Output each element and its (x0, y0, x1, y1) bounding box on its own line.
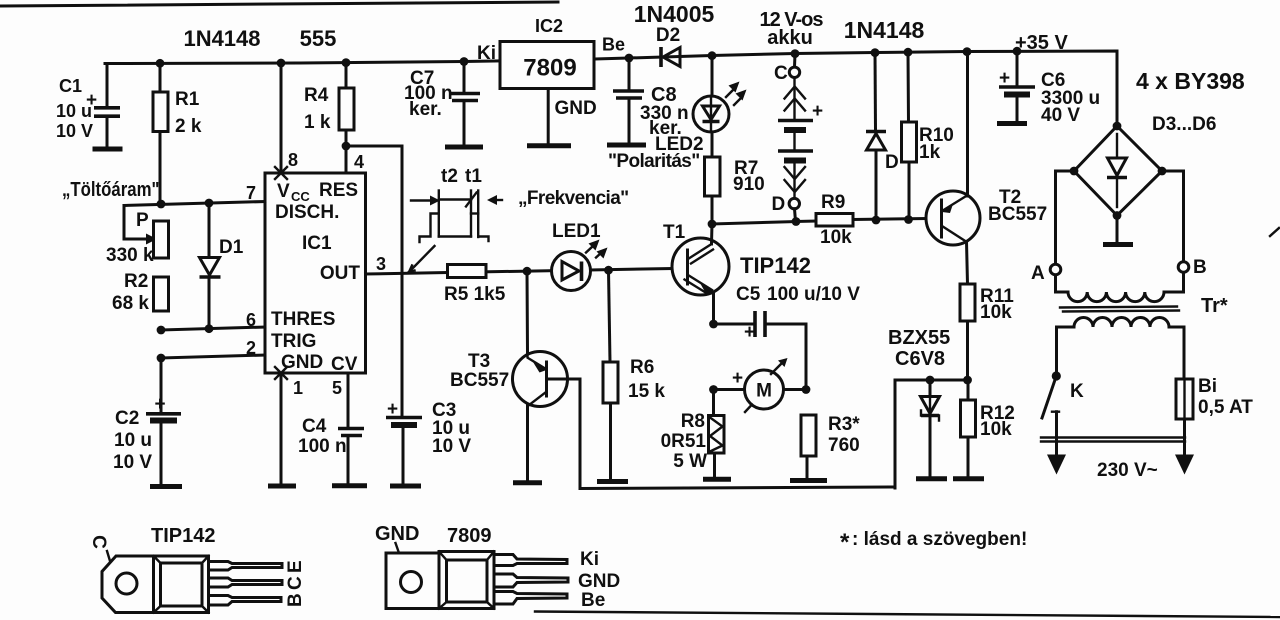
svg-text:RES: RES (319, 180, 358, 201)
svg-text:D: D (885, 152, 899, 173)
svg-text:10 V: 10 V (432, 436, 471, 457)
svg-text:M: M (756, 381, 772, 402)
svg-text:BZX55: BZX55 (888, 327, 950, 349)
svg-text:10k: 10k (820, 227, 852, 248)
svg-text:R8: R8 (681, 411, 705, 432)
svg-text:t1: t1 (465, 166, 482, 187)
svg-text:T3: T3 (468, 351, 490, 372)
svg-text:V: V (277, 181, 290, 202)
svg-text:D1: D1 (219, 237, 244, 258)
svg-text:C6V8: C6V8 (895, 348, 945, 370)
svg-text:C2: C2 (115, 408, 139, 429)
svg-text:Be: Be (602, 35, 625, 55)
svg-text:OUT: OUT (320, 263, 361, 284)
svg-text:Ki: Ki (580, 549, 599, 570)
svg-text:Tr*: Tr* (1201, 295, 1228, 317)
svg-text:330 k: 330 k (106, 245, 154, 266)
svg-text:BC557: BC557 (450, 370, 509, 391)
svg-text:+: + (732, 368, 743, 389)
svg-text:C: C (774, 63, 788, 84)
svg-text:5 W: 5 W (673, 451, 707, 472)
svg-text:8: 8 (288, 150, 298, 170)
svg-text:IC1: IC1 (302, 233, 332, 254)
svg-text:1 k: 1 k (304, 112, 331, 133)
svg-text:7: 7 (246, 183, 256, 203)
svg-text:K: K (1070, 381, 1084, 402)
svg-text:Be: Be (581, 590, 605, 611)
svg-text:+: + (387, 399, 398, 420)
svg-text:C5: C5 (736, 284, 761, 305)
svg-text:: lásd a szövegben!: : lásd a szövegben! (852, 529, 1027, 550)
svg-text:10 u: 10 u (56, 101, 92, 121)
svg-text:R6: R6 (630, 357, 654, 378)
svg-text:10k: 10k (980, 302, 1012, 323)
svg-text:T1: T1 (663, 222, 686, 243)
svg-text:40 V: 40 V (1041, 105, 1080, 126)
svg-text:R3*: R3* (828, 414, 860, 435)
svg-text:Bi: Bi (1198, 376, 1217, 397)
svg-text:+: + (155, 394, 166, 415)
svg-text:"Polaritás": "Polaritás" (608, 151, 700, 172)
svg-text:„Töltőáram": „Töltőáram" (62, 178, 159, 201)
svg-text:C: C (88, 535, 109, 549)
svg-text:P: P (136, 210, 149, 231)
svg-text:910: 910 (733, 174, 765, 195)
svg-text:4 x BY398: 4 x BY398 (1136, 68, 1245, 94)
svg-text:1N4148: 1N4148 (183, 26, 260, 51)
svg-text:7809: 7809 (523, 55, 576, 82)
svg-text:R2: R2 (124, 271, 148, 292)
svg-text:760: 760 (828, 435, 860, 456)
svg-text:ker.: ker. (409, 99, 442, 120)
svg-text:+: + (744, 322, 755, 343)
svg-text:GND: GND (375, 523, 419, 545)
svg-text:Ki: Ki (477, 43, 496, 64)
svg-text:GND: GND (555, 98, 597, 119)
svg-text:*: * (840, 529, 850, 556)
svg-text:1: 1 (293, 378, 303, 398)
svg-text:2: 2 (246, 338, 256, 358)
svg-text:D: D (772, 194, 786, 215)
svg-text:„Frekvencia": „Frekvencia" (518, 188, 629, 209)
svg-text:10 u: 10 u (114, 430, 152, 451)
svg-text:B: B (285, 593, 306, 607)
svg-text:t2: t2 (441, 166, 458, 187)
svg-text:DISCH.: DISCH. (275, 202, 339, 223)
svg-text:R5 1k5: R5 1k5 (444, 284, 506, 305)
svg-text:10 V: 10 V (56, 121, 93, 141)
svg-text:LED1: LED1 (552, 221, 601, 242)
svg-text:3: 3 (376, 254, 386, 274)
svg-text:15 k: 15 k (628, 381, 665, 402)
svg-text:R4: R4 (304, 85, 329, 106)
svg-text:68 k: 68 k (112, 293, 149, 314)
svg-text:R9: R9 (821, 192, 845, 213)
svg-text:555: 555 (300, 26, 337, 51)
svg-text:IC2: IC2 (535, 16, 563, 36)
svg-text:akku: akku (767, 27, 813, 49)
svg-text:1N4148: 1N4148 (844, 17, 925, 43)
svg-text:A: A (1031, 263, 1045, 284)
svg-text:+: + (999, 68, 1010, 89)
svg-text:TIP142: TIP142 (740, 253, 811, 278)
svg-text:0,5 AT: 0,5 AT (1198, 397, 1253, 418)
svg-text:GND: GND (281, 352, 323, 373)
svg-text:1N4005: 1N4005 (634, 1, 715, 27)
svg-text:4: 4 (354, 152, 364, 172)
svg-text:GND: GND (578, 571, 620, 592)
svg-text:10 V: 10 V (113, 452, 152, 473)
svg-text:1k: 1k (919, 142, 941, 163)
svg-text:7809: 7809 (447, 525, 492, 547)
svg-text:230 V~: 230 V~ (1097, 460, 1158, 481)
svg-text:TRIG: TRIG (271, 331, 316, 352)
svg-text:5: 5 (332, 378, 342, 398)
svg-text:100 u/10 V: 100 u/10 V (767, 284, 860, 305)
svg-text:E: E (285, 560, 306, 573)
svg-text:B: B (1193, 257, 1207, 278)
svg-text:2 k: 2 k (175, 116, 202, 137)
svg-text:10k: 10k (980, 419, 1012, 440)
svg-text:+: + (812, 101, 823, 122)
svg-text:CV: CV (331, 354, 358, 375)
svg-text:THRES: THRES (271, 309, 335, 330)
svg-text:C1: C1 (59, 76, 82, 96)
svg-text:C4: C4 (302, 416, 327, 437)
svg-text:+35 V: +35 V (1015, 32, 1068, 54)
svg-text:C: C (285, 576, 306, 590)
svg-text:100 n: 100 n (298, 436, 347, 457)
svg-text:R1: R1 (175, 89, 200, 110)
svg-text:BC557: BC557 (988, 204, 1047, 225)
svg-text:D2: D2 (656, 25, 680, 46)
svg-text:D3...D6: D3...D6 (1152, 114, 1216, 135)
svg-text:6: 6 (246, 310, 256, 330)
svg-text:0R51: 0R51 (661, 431, 707, 452)
svg-text:TIP142: TIP142 (151, 525, 215, 547)
